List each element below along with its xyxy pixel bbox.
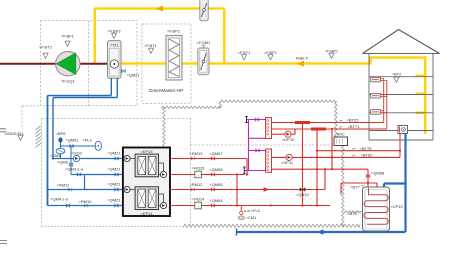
svg-text:=QM54: =QM54 bbox=[209, 198, 223, 203]
valve drop QM5 bbox=[70, 146, 72, 175]
svg-text:=RM11: =RM11 bbox=[57, 183, 70, 188]
brine pump F.GQ1 bbox=[56, 52, 80, 76]
sensor BT6 bbox=[347, 211, 363, 216]
dashed enclosure: GreenMaster-HP box bbox=[142, 24, 191, 103]
svg-text:=QN10: =QN10 bbox=[296, 192, 310, 197]
svg-text:=BT6: =BT6 bbox=[347, 211, 357, 216]
svg-text:=BT82: =BT82 bbox=[361, 152, 374, 157]
sensor F.BT2 bbox=[39, 45, 53, 59]
air handling unit bottom floor bbox=[398, 126, 408, 134]
dashed divider in collector box bbox=[87, 21, 89, 106]
svg-text:=QM55: =QM55 bbox=[209, 182, 223, 187]
conduit band A (GreenMaster to junction) bbox=[161, 106, 220, 109]
module inlet valves QM21 bbox=[107, 151, 121, 161]
gauge BP6 bbox=[56, 131, 67, 142]
brine return riser bbox=[52, 98, 54, 159]
svg-text:=RM10: =RM10 bbox=[78, 199, 92, 204]
wall hatching at boundary bbox=[36, 126, 42, 148]
valve QM54 bbox=[209, 198, 223, 207]
shunt HQ15 bbox=[192, 166, 206, 178]
svg-text:=RM13: =RM13 bbox=[189, 151, 203, 156]
sensor EB100-BT1 bbox=[4, 132, 24, 141]
brine header lower bbox=[53, 97, 117, 99]
svg-text:=QM21: =QM21 bbox=[126, 73, 140, 78]
heating line A from EP15 bbox=[170, 159, 247, 175]
dhw link 3 bbox=[249, 150, 266, 152]
sensor F.BF1 bbox=[61, 34, 75, 47]
svg-text:=F.BP1: =F.BP1 bbox=[264, 50, 278, 55]
svg-text:=QM51: =QM51 bbox=[65, 138, 79, 143]
tie line 2-3 bbox=[84, 175, 86, 190]
svg-text:=BT2: =BT2 bbox=[392, 72, 402, 77]
svg-text:=GP11: =GP11 bbox=[281, 160, 294, 165]
internal links bbox=[130, 159, 164, 206]
internal pump EP14 out bbox=[160, 202, 166, 208]
shunt HQ14 bbox=[192, 197, 206, 209]
valve QM4 bbox=[50, 197, 70, 208]
heating line C from EP14 bbox=[170, 189, 325, 191]
svg-text:=CM3: =CM3 bbox=[50, 153, 62, 158]
house roof bbox=[363, 30, 440, 54]
sensor BT71 bbox=[340, 124, 360, 129]
riser v3 bbox=[331, 129, 333, 169]
valve QM58 bbox=[366, 171, 385, 178]
brine line 1 to module bbox=[53, 158, 123, 160]
check valve RM10 bbox=[78, 199, 92, 207]
svg-text:=QM5: =QM5 bbox=[57, 160, 69, 165]
valve QM3 bbox=[65, 167, 83, 177]
dhw circ top link bbox=[247, 119, 266, 121]
pump line r3 bbox=[272, 129, 296, 134]
internal pump EP15 bbox=[124, 155, 130, 161]
svg-text:=HQ14: =HQ14 bbox=[192, 197, 206, 202]
svg-text:=QM57: =QM57 bbox=[209, 151, 223, 156]
heat recovery unit TX1 bbox=[108, 41, 122, 79]
conduit band C down to AXC bbox=[335, 101, 338, 137]
svg-text:=F.GQ1: =F.GQ1 bbox=[61, 79, 76, 84]
sensor BT2 (room) bbox=[392, 72, 402, 83]
brine line 3 to module bbox=[48, 189, 123, 191]
check valve RM11 bbox=[57, 183, 72, 192]
valve QM56 bbox=[209, 167, 223, 176]
sensor F.BR1 bbox=[325, 49, 339, 59]
cw flow arrow bbox=[317, 229, 324, 235]
conduit band B (to AXC riser) bbox=[220, 100, 336, 103]
tie line B-C bbox=[236, 175, 238, 206]
fan convector floor 2 bbox=[371, 77, 381, 82]
svg-text:=QM21: =QM21 bbox=[107, 167, 121, 172]
junction node blue bbox=[46, 188, 48, 190]
exhaust air duct: top run bbox=[95, 7, 225, 10]
safety valve FL3 bbox=[82, 138, 101, 151]
sensor F.BT1 (duct) bbox=[238, 50, 252, 60]
svg-text:=BT71: =BT71 bbox=[348, 124, 361, 129]
sensor F.BP3 bbox=[107, 29, 121, 39]
heat exchanger F.BP2 bbox=[166, 35, 182, 80]
tank inlet header bbox=[341, 183, 377, 195]
sensor F.BT1 (GreenMaster) bbox=[144, 43, 158, 53]
unit heating drop bbox=[399, 134, 401, 158]
AXC accessory box bbox=[334, 132, 348, 146]
page edge ticks left bbox=[0, 129, 7, 244]
svg-text:=BT25: =BT25 bbox=[347, 118, 360, 123]
svg-text:=QM21: =QM21 bbox=[107, 182, 121, 187]
svg-text:=CM1: =CM1 bbox=[246, 215, 258, 220]
cold water to tank bbox=[384, 184, 406, 191]
cold water main bbox=[237, 134, 406, 233]
mixing valve QN10 bbox=[296, 187, 310, 197]
svg-text:=F.BP3: =F.BP3 bbox=[107, 29, 121, 34]
svg-text:=QM4 s-a: =QM4 s-a bbox=[50, 197, 68, 202]
svg-text:=QM56: =QM56 bbox=[209, 167, 223, 172]
duct drop right bbox=[223, 9, 226, 64]
svg-text:s-a =FL2: s-a =FL2 bbox=[244, 208, 261, 213]
duct drop left bbox=[94, 9, 97, 64]
junction dot cw bbox=[404, 182, 407, 185]
svg-text:=TX1: =TX1 bbox=[110, 44, 118, 48]
hot water tank CP10 bbox=[363, 187, 390, 231]
valve QM51 bbox=[65, 138, 79, 148]
insulated section r2 bbox=[311, 128, 326, 131]
air flow arrow top duct bbox=[156, 6, 164, 12]
riser v2 bbox=[316, 129, 318, 206]
svg-text:=BT7: =BT7 bbox=[350, 184, 360, 189]
external connection stub bottom bbox=[243, 167, 246, 175]
sensor BT7 bbox=[350, 184, 365, 189]
safety branch bbox=[61, 145, 102, 147]
riser v4 to tank bbox=[367, 169, 369, 187]
dhw bottom link bbox=[244, 170, 265, 172]
check valve RM12 bbox=[189, 182, 203, 191]
fan convector floor 4 bbox=[371, 110, 381, 115]
radiator supply r1 bbox=[272, 122, 384, 124]
pump GP11 bbox=[281, 154, 294, 165]
brine main riser out bbox=[47, 96, 49, 206]
dashed stub to EB100-BT1 bbox=[22, 106, 41, 129]
damper F.QM1 bbox=[198, 46, 209, 75]
svg-text:=F.QM1: =F.QM1 bbox=[196, 40, 211, 45]
check valve RM13 bbox=[189, 151, 203, 160]
dhw link 2 bbox=[249, 137, 266, 139]
sensor BT82 bbox=[353, 152, 373, 157]
dashed enclosure: collector box left bbox=[41, 21, 137, 106]
brine pipes from TX1 bbox=[111, 78, 117, 98]
svg-text:=BP6: =BP6 bbox=[56, 131, 67, 136]
safety valve FL2 bbox=[240, 208, 261, 215]
hw return r5 bbox=[272, 156, 401, 158]
expansion vessel CM1 bbox=[238, 215, 257, 220]
dhw circ line vertical bbox=[248, 120, 250, 171]
svg-text:=BT75: =BT75 bbox=[360, 146, 373, 151]
svg-text:=EB100-BT1: =EB100-BT1 bbox=[4, 132, 24, 136]
manifold upper bbox=[266, 118, 272, 139]
expansion stub riser bbox=[60, 141, 62, 159]
conduit band jog bbox=[219, 101, 222, 107]
fan convector floor 3 bbox=[371, 93, 381, 98]
svg-text:=QM3 s-a: =QM3 s-a bbox=[65, 167, 83, 172]
damper on top duct bbox=[200, 0, 208, 21]
cw end cap bbox=[236, 229, 238, 236]
flow arrow line C bbox=[264, 187, 270, 192]
expansion vessel CM3 bbox=[50, 148, 65, 158]
svg-text:=F.BP2: =F.BP2 bbox=[167, 29, 181, 34]
brine header upper bbox=[48, 95, 112, 97]
dhw valve 2 bbox=[256, 149, 260, 152]
svg-text:=QM58: =QM58 bbox=[371, 171, 385, 176]
house walls and floors bbox=[363, 54, 440, 141]
safety valve FL2 drop bbox=[240, 206, 242, 213]
module EP15 bbox=[135, 149, 158, 177]
svg-text:=F.BF1: =F.BF1 bbox=[61, 34, 75, 39]
brine line 4 to module bbox=[48, 205, 123, 207]
heat pump cascade cabinet bbox=[123, 148, 170, 217]
dashed system boundary left bbox=[41, 119, 43, 227]
radiator return r2 bbox=[272, 128, 387, 130]
pump GP10 bbox=[282, 131, 295, 142]
svg-text:=EP14: =EP14 bbox=[140, 211, 153, 216]
hw supply r4 bbox=[317, 150, 400, 152]
heating line D from EP14 bbox=[170, 205, 330, 207]
svg-text:=QM21: =QM21 bbox=[107, 198, 121, 203]
external connection stub top bbox=[245, 116, 248, 123]
ground brine line (dark red) bbox=[0, 63, 109, 65]
internal pump EP14 bbox=[124, 186, 130, 192]
valve QM55 bbox=[209, 182, 223, 191]
brine line 2 to module bbox=[71, 174, 123, 176]
dashed cable to AXC bbox=[191, 144, 335, 146]
svg-text:=RM12: =RM12 bbox=[189, 182, 203, 187]
radiator risers bbox=[384, 79, 387, 130]
insulated section r1 bbox=[295, 121, 310, 124]
dhw valve bbox=[255, 118, 259, 121]
svg-text:=QM21: =QM21 bbox=[107, 151, 121, 156]
junction dots red bbox=[236, 173, 238, 175]
valve QM57 bbox=[209, 151, 223, 160]
riser v1 bbox=[302, 123, 304, 206]
conduit band D down to heat pump box bbox=[163, 107, 166, 147]
svg-text:=GQ2: =GQ2 bbox=[71, 151, 83, 156]
svg-text:=HQ15: =HQ15 bbox=[192, 166, 206, 171]
svg-text:=GP10: =GP10 bbox=[282, 137, 295, 142]
svg-text:=CP10: =CP10 bbox=[390, 204, 403, 209]
svg-text:AXC: AXC bbox=[337, 132, 345, 137]
sensor BT25 bbox=[340, 118, 359, 123]
manifold lower bbox=[266, 149, 272, 172]
internal pump EP15 out bbox=[160, 171, 166, 177]
svg-text:Fläkt F: Fläkt F bbox=[296, 56, 309, 61]
svg-text:=EP15: =EP15 bbox=[140, 149, 153, 154]
svg-text:=F.BT2: =F.BT2 bbox=[39, 45, 53, 50]
main duct run bbox=[119, 62, 371, 65]
svg-text:=F.BT1: =F.BT1 bbox=[238, 50, 252, 55]
charge line r6 bbox=[272, 168, 369, 170]
junction dots heating bbox=[301, 121, 303, 123]
sensor BT75 bbox=[353, 146, 372, 151]
air flow arrow main duct bbox=[297, 61, 305, 67]
svg-text:=FL3: =FL3 bbox=[82, 138, 92, 143]
heating line B from EP15 bbox=[170, 174, 244, 176]
dashed system boundary bottom bbox=[42, 225, 184, 227]
svg-text:=F.BR1: =F.BR1 bbox=[325, 49, 339, 54]
conduit band E (AXC to tank sensors) bbox=[342, 146, 345, 226]
radiator stubs bbox=[380, 79, 387, 113]
module EP14 bbox=[135, 187, 158, 216]
duct into house and riser bbox=[371, 58, 426, 134]
riser c5 return bbox=[324, 169, 326, 189]
dashed system boundary top bbox=[42, 119, 191, 227]
pump GQ2 bbox=[71, 151, 83, 162]
svg-text:=F.BT1: =F.BT1 bbox=[144, 43, 158, 48]
valve QM21 at TX1 bbox=[122, 70, 141, 78]
sensor F.BP1 bbox=[264, 50, 278, 60]
svg-text:GreenMaster-HP: GreenMaster-HP bbox=[149, 88, 184, 93]
